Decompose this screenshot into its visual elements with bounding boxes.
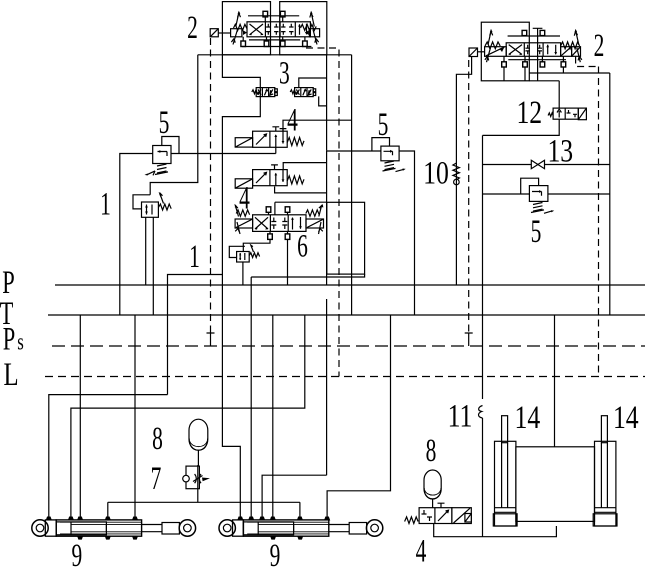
pilot dashed drain from valve 2 left block	[306, 48, 339, 377]
cylinder 9 left eye left	[32, 520, 48, 536]
valve 2 right parallel lines	[508, 36, 566, 60]
svg-text:5: 5	[531, 214, 542, 251]
svg-text:L: L	[3, 357, 18, 393]
svg-text:9: 9	[71, 538, 82, 568]
valve 13 shutoff	[483, 160, 610, 168]
wire to 9A port2	[71, 315, 305, 518]
cylinder 9 right rod and eye	[329, 525, 349, 532]
svg-text:9: 9	[270, 538, 281, 568]
relief valve 5 right	[483, 178, 610, 213]
svg-text:5: 5	[159, 105, 170, 142]
cylinder 9 right top port nubs	[238, 517, 329, 520]
blocked pilot port T line	[533, 28, 543, 81]
valve 2 left port boxes bottom	[241, 37, 307, 47]
accumulator 8 left	[189, 419, 208, 466]
wire valve 4 bottom to cylinders 14	[434, 524, 557, 537]
reducing valve 1 left	[133, 192, 171, 217]
cylinder 9 left bottom nubs	[78, 536, 138, 539]
svg-text:s: s	[17, 330, 24, 355]
relief valve 5 left	[145, 137, 180, 176]
svg-text:4: 4	[416, 533, 427, 568]
valve 4A spring	[287, 138, 304, 146]
valve 6 port boxes bottom	[270, 231, 288, 234]
svg-text:P: P	[3, 321, 15, 357]
throttle check valve 7	[183, 465, 210, 502]
svg-text:11: 11	[448, 399, 473, 435]
valve 2 left port boxes top	[263, 11, 285, 21]
valve 2 left solenoid left	[231, 11, 247, 45]
wire valve 1 left to T	[152, 217, 154, 315]
valve 2 left body	[247, 22, 310, 37]
wire valve 5 middle line	[327, 151, 415, 315]
pilot dashed line from valve 2 left	[210, 38, 212, 333]
svg-text:1: 1	[189, 239, 200, 276]
svg-text:3: 3	[279, 55, 290, 92]
bus Ps line	[52, 345, 645, 347]
wire T to platform	[554, 315, 556, 447]
valve 6 solenoid right	[306, 219, 324, 228]
wire valve 6 top port to enclosure line	[275, 202, 327, 215]
valve 2 left subplate block right	[280, 2, 327, 55]
cylinder 14 right	[593, 416, 617, 526]
wire valve 4B top port to center column	[283, 163, 326, 170]
cylinder 9 right eye left	[219, 520, 235, 536]
wire valve 4A bottom port	[275, 147, 277, 153]
valve 2 right subplate block	[481, 22, 529, 81]
svg-text:2: 2	[594, 28, 605, 65]
reducing valve 1 left pilot loop	[133, 195, 150, 209]
wire valve 1 left to P	[145, 217, 147, 285]
relief valve 5 left pilot loop	[162, 137, 179, 154]
item 11 coupling	[479, 406, 483, 537]
valve 4 bottom unit	[405, 503, 472, 523]
valve 4B pilot box	[235, 179, 252, 188]
wire to 9B port6	[327, 315, 390, 518]
wire center column x326	[326, 150, 328, 475]
wire valve 2 right pilot supply down	[456, 57, 471, 286]
valve 2 right pilot symbol box	[469, 48, 485, 57]
wire valve 2 right work port down right	[529, 67, 610, 315]
wire to 9B port4	[272, 315, 274, 518]
wire accumulator line to cylinders	[108, 502, 300, 517]
svg-text:14: 14	[515, 400, 541, 436]
valve 4A blocked port T marks above	[272, 127, 286, 131]
valve 4B spring	[287, 176, 304, 184]
cylinder 9 left rod and eye	[142, 525, 162, 532]
svg-text:8: 8	[152, 421, 163, 458]
svg-text:14: 14	[613, 400, 639, 436]
svg-text:8: 8	[426, 433, 437, 470]
wire valve 4A top port to center column	[283, 120, 352, 131]
wire valve 1 lower to P	[242, 262, 244, 285]
platform between cylinders 14	[516, 447, 595, 522]
wire valve 4B bottom port to center column	[275, 187, 327, 193]
valve 2 left pilot symbol box	[210, 29, 230, 37]
cylinder 9 left top port nubs	[47, 517, 138, 520]
cylinder 9 right bottom nubs	[271, 536, 303, 539]
wire main under valve 2 left	[198, 54, 352, 56]
wire to 9A port5	[134, 315, 136, 518]
wire relief line y153.5	[171, 153, 276, 155]
cylinder 14 left	[493, 416, 517, 526]
manifold boundary right staircase	[299, 55, 327, 150]
valve 2 left solenoid right	[301, 11, 320, 45]
valve 2 left subplate block left	[222, 2, 270, 55]
wire to 9B port3	[262, 475, 327, 517]
valve 12	[548, 108, 586, 120]
pilot dashed line valve 2 right to Ps	[468, 60, 470, 333]
wire to 9A port1	[49, 395, 168, 518]
svg-text:10: 10	[423, 156, 449, 192]
valve 4A pilot box	[235, 138, 252, 147]
accumulator 8 right	[424, 470, 441, 508]
svg-text:6: 6	[297, 228, 308, 265]
wire left horizontal y274.5	[168, 275, 223, 395]
wire center column x351.6	[351, 55, 353, 315]
svg-text:12: 12	[516, 95, 542, 131]
enclosure rectangle center	[327, 202, 365, 274]
wire from rectangle to cylinder column	[251, 274, 364, 517]
valve 6 solenoid left	[235, 219, 253, 228]
valve 6 body	[253, 215, 306, 232]
valve 4A body	[253, 131, 288, 147]
manifold boundary left staircase	[222, 55, 260, 275]
item 10 orifice on pilot line	[453, 163, 460, 185]
valve 2 left subplate inner line	[242, 46, 311, 48]
wire valve 6 bottom right port to P	[287, 239, 289, 285]
wire x222.4 lower to cylinder 9 right	[222, 275, 240, 518]
bus P line	[55, 284, 645, 286]
relief valve 5 right pilot loop	[521, 178, 539, 194]
wire to 9A port3	[79, 315, 81, 518]
valve 2 right end plate	[572, 47, 581, 57]
valve 4B body	[253, 170, 288, 186]
reducing valve 1 lower	[229, 245, 259, 262]
wire valve 6 bottom to valve 1 lower	[243, 239, 270, 251]
valve 2 left parallel lines	[248, 16, 300, 40]
relief valve 5 middle pilot loop	[372, 138, 390, 152]
valve 2 right body	[506, 43, 560, 57]
valve 2 right solenoid right	[561, 29, 582, 62]
svg-text:1: 1	[100, 186, 111, 223]
svg-text:7: 7	[151, 461, 162, 498]
cylinder 9 right barrel	[243, 520, 328, 536]
wire valve 5 left loop to T	[120, 154, 153, 316]
relief valve 5 middle	[372, 138, 406, 172]
bus L line	[45, 376, 645, 378]
valve 3 unit left	[252, 88, 277, 97]
valve 2 right solenoid left	[485, 29, 507, 62]
cylinder 9 left barrel	[56, 520, 141, 536]
wire left drop to valve 1	[150, 55, 198, 195]
svg-text:2: 2	[187, 10, 198, 47]
bus T line	[48, 314, 645, 316]
wire block ports down	[504, 67, 525, 81]
right manifold boundary	[483, 81, 560, 399]
drain dashed from valve 2 right solenoid	[576, 57, 599, 377]
valve 2 right port boxes bottom	[502, 56, 566, 67]
valve 6 port boxes top	[269, 212, 288, 215]
valve 4B blocked port T mark above	[271, 165, 278, 170]
valve 2 right port boxes top	[522, 28, 545, 81]
reducing valve 1 lower pilot loop	[229, 246, 245, 257]
valve 3 unit right	[290, 88, 316, 97]
